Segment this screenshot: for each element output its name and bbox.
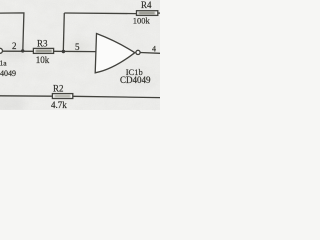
svg-text:R3: R3	[37, 38, 48, 48]
svg-text:2: 2	[12, 41, 17, 51]
svg-text:4: 4	[152, 44, 156, 53]
svg-text:CD4049: CD4049	[0, 69, 16, 78]
svg-text:5: 5	[75, 42, 80, 52]
svg-text:10k: 10k	[36, 55, 50, 65]
svg-text:IC1a: IC1a	[0, 59, 7, 68]
svg-text:4.7k: 4.7k	[51, 100, 67, 110]
svg-text:R2: R2	[53, 84, 64, 94]
svg-text:100k: 100k	[133, 15, 151, 25]
svg-text:R4: R4	[141, 0, 152, 10]
svg-text:CD4049: CD4049	[120, 75, 151, 85]
